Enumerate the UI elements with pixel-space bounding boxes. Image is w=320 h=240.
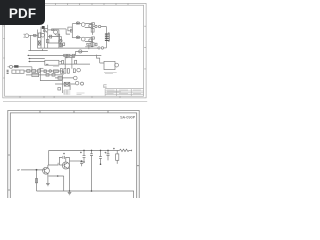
wire <box>72 37 81 39</box>
wire <box>59 62 90 64</box>
transformer winding box <box>38 33 40 38</box>
wire left rail of amp section <box>71 24 73 38</box>
wire drop from plug <box>29 35 31 50</box>
IC U5 <box>104 61 115 69</box>
resistor R2b <box>60 37 62 40</box>
resistor notch <box>71 29 73 32</box>
wire stub <box>77 21 79 22</box>
transistor Q7 <box>75 81 79 85</box>
page 2 sheet border outer <box>8 111 139 199</box>
diode D1 <box>41 33 45 37</box>
wire into U3 <box>28 59 44 62</box>
connector J2 pins <box>7 26 109 74</box>
title block row line <box>105 91 143 95</box>
transistor Q5 <box>77 68 81 72</box>
junction dot <box>77 23 78 24</box>
IC U2 <box>68 27 72 31</box>
transistor Q2 <box>81 23 85 27</box>
plus mark <box>66 57 68 59</box>
node plus mark <box>40 32 42 34</box>
wire vertical <box>62 75 70 93</box>
wire rail B <box>65 56 75 58</box>
resistor R4 <box>92 23 95 25</box>
wire vertical rail <box>47 25 49 48</box>
resistor R22 <box>35 179 37 183</box>
label text cluster mid <box>53 66 59 68</box>
resistor R1c <box>46 40 49 43</box>
fuse F1 <box>33 35 36 37</box>
connector J3 block <box>12 70 24 73</box>
wire rung <box>48 37 60 43</box>
zone ticks bottom <box>20 96 120 98</box>
sheet border outer <box>3 3 146 98</box>
page 2 paper <box>0 104 149 198</box>
connector J2 outline <box>108 33 110 41</box>
revision table <box>64 90 70 95</box>
wire vertical rail <box>58 30 60 48</box>
svg-text:PDF: PDF <box>9 6 36 21</box>
resistor R16 <box>58 88 61 90</box>
wire <box>8 67 32 71</box>
wire chain2 <box>26 74 62 76</box>
page 2 zone tick sides <box>8 155 139 190</box>
capacitor C27 plates <box>90 154 93 156</box>
junction dot <box>28 55 29 56</box>
wire <box>93 26 107 28</box>
wire vertical <box>105 27 107 48</box>
wire <box>48 29 59 31</box>
junction dots page 2 <box>36 150 109 192</box>
wire spur <box>28 49 47 51</box>
IC U3 label <box>46 63 49 65</box>
transistor Q1 <box>54 30 58 34</box>
capacitor C6b <box>91 43 94 47</box>
zone ticks left <box>3 26 5 78</box>
connector pin circle <box>95 25 97 27</box>
IC U4 crossed <box>64 82 70 86</box>
transistor Q21 <box>43 167 50 174</box>
title block divider <box>117 89 132 97</box>
wire collector <box>47 164 50 166</box>
resistor R1b <box>50 35 52 38</box>
resistor R21 <box>120 149 132 151</box>
page 1 paper <box>0 0 149 103</box>
capacitor C3 <box>60 69 62 74</box>
resistor R1 <box>52 29 54 31</box>
transistor Q4 <box>79 50 82 53</box>
resistor R17 <box>95 43 97 46</box>
resistor R13b <box>37 70 40 73</box>
feedback loop wire <box>59 157 69 191</box>
wire vertical long <box>91 150 93 191</box>
capacitor C21 <box>83 150 86 161</box>
resistor R14b <box>46 74 49 77</box>
connector pin circle <box>98 25 100 27</box>
relay K1 dark box <box>14 65 18 68</box>
title block outline <box>105 89 143 97</box>
transistor Q7b <box>81 82 84 85</box>
connector stub marks <box>104 85 107 88</box>
wire vertical input branch <box>36 170 38 191</box>
wire rail A <box>28 54 102 56</box>
resistor R10 <box>73 69 75 73</box>
wire <box>70 160 82 162</box>
PDF badge <box>0 0 45 25</box>
transformer T1 core <box>40 27 42 49</box>
ground <box>46 183 50 185</box>
wire <box>39 67 44 69</box>
wire <box>29 34 38 36</box>
transistor Q9 <box>115 63 119 67</box>
resistor R13 <box>32 70 36 73</box>
wire step <box>97 55 105 63</box>
capacitor C24 electrolytic <box>116 150 118 153</box>
capacitor C4 <box>64 69 66 74</box>
resistor R14c <box>52 74 55 77</box>
wire vertical <box>92 24 94 35</box>
resistor R8 <box>62 61 64 64</box>
transistor Q3b <box>89 39 92 42</box>
label text under U5 <box>104 72 117 73</box>
sheet border inner <box>5 5 144 96</box>
capacitor C1 crossed box <box>59 40 61 43</box>
resistor R12b <box>27 70 30 73</box>
rectifier dark blob <box>42 26 45 29</box>
wire vertical <box>39 69 41 81</box>
resistor R13c <box>53 70 58 73</box>
wire spur up <box>76 51 89 55</box>
capacitor C25 <box>80 161 83 166</box>
page 1 paper bottom edge <box>3 101 147 103</box>
resistor R11 <box>58 77 62 80</box>
transformer T1 secondary <box>43 27 45 49</box>
resistor R2 <box>58 34 60 37</box>
wire <box>85 38 93 42</box>
diode D4 <box>59 39 62 42</box>
page 2 sheet border inner <box>10 113 136 198</box>
wire base link <box>59 164 64 166</box>
wire <box>104 47 107 49</box>
connector J1 (AC plug) <box>25 34 29 38</box>
junction dot <box>77 37 78 38</box>
capacitor C26 series <box>63 156 65 159</box>
transformer T1 primary <box>37 30 39 49</box>
title block <box>64 89 144 97</box>
wire vertical <box>65 55 72 68</box>
capacitor C6 <box>91 28 94 32</box>
connector pin circle <box>98 47 100 49</box>
wire <box>85 44 93 49</box>
wire <box>54 28 67 30</box>
label dash <box>34 36 37 38</box>
wire <box>48 176 63 191</box>
connector J3 pins <box>7 69 9 72</box>
connector pin circle <box>101 47 103 49</box>
wire stub <box>77 35 79 36</box>
cluster box <box>87 43 91 45</box>
node plus mark <box>46 31 47 32</box>
transistor Q2b <box>89 24 92 27</box>
resistor R13c2 <box>44 70 46 73</box>
wire <box>72 23 81 25</box>
wire input <box>21 169 44 171</box>
plus mark <box>105 152 107 154</box>
wire <box>55 78 75 84</box>
transistor Q3 <box>81 37 85 41</box>
resistor R2c <box>63 43 65 46</box>
capacitor C22 <box>99 150 102 163</box>
wire top bus <box>44 28 47 30</box>
plus mark <box>80 148 115 154</box>
transistor Q6 <box>74 76 78 80</box>
resistor R3 <box>76 22 79 24</box>
wire <box>40 80 62 82</box>
capacitor C23 <box>107 150 110 160</box>
wire vertical from bus <box>49 150 58 165</box>
page 2 zone tick top <box>40 111 108 113</box>
diode D3 <box>43 30 45 32</box>
wire chain1 <box>24 71 63 75</box>
resistor rail boxes <box>64 54 67 56</box>
transformer winding box lower <box>38 41 41 45</box>
wire vertical <box>92 38 94 47</box>
wire <box>66 29 70 34</box>
capacitor C2 crossed box <box>60 44 63 47</box>
IC U3 <box>45 60 59 65</box>
svg-text:SA-090P: SA-090P <box>120 115 136 119</box>
resistor R9 <box>75 60 77 64</box>
plus mark <box>63 153 65 155</box>
label text row <box>77 93 85 94</box>
zone ticks right <box>144 26 146 69</box>
junction dot <box>57 175 59 177</box>
wire bottom rail <box>38 47 98 49</box>
input label IN <box>17 169 20 170</box>
capacitor C5 <box>67 69 69 74</box>
title block text <box>107 90 142 94</box>
wire top bus <box>49 149 120 151</box>
resistor R5 <box>76 36 79 38</box>
diode D2 <box>10 65 13 68</box>
transistor Q22 <box>62 162 69 169</box>
wire <box>85 24 93 28</box>
ground lower <box>68 192 72 194</box>
wire bottom rail <box>37 191 134 198</box>
zone ticks top <box>20 3 128 5</box>
resistor R14 <box>32 73 39 76</box>
diode D5 <box>49 70 52 73</box>
resistor R4b <box>92 37 95 39</box>
